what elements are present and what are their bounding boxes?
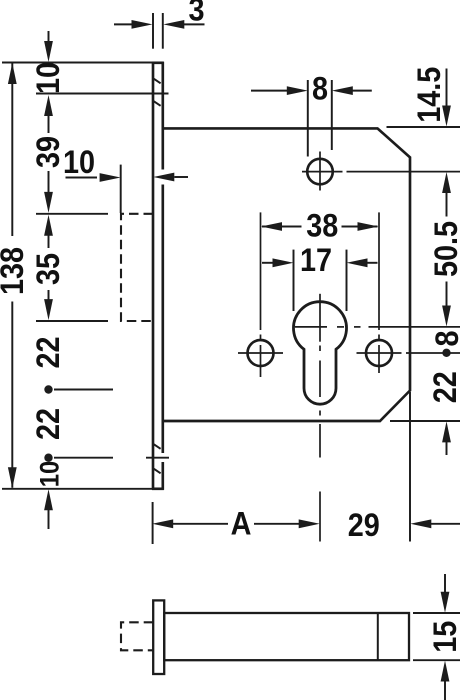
svg-text:39: 39 [31, 136, 67, 168]
svg-text:10: 10 [31, 62, 67, 94]
svg-text:22: 22 [31, 336, 67, 368]
svg-text:8: 8 [430, 330, 460, 346]
svg-text:8: 8 [312, 71, 328, 107]
svg-text:15: 15 [428, 621, 460, 653]
svg-text:17: 17 [300, 243, 332, 279]
svg-text:A: A [231, 506, 252, 542]
svg-text:50.5: 50.5 [429, 221, 460, 277]
svg-text:22: 22 [427, 371, 460, 403]
svg-text:3: 3 [188, 0, 204, 28]
svg-text:10: 10 [63, 145, 95, 181]
svg-text:138: 138 [0, 247, 30, 295]
svg-text:35: 35 [31, 253, 67, 285]
svg-text:10: 10 [35, 461, 64, 488]
svg-text:29: 29 [348, 508, 380, 544]
svg-text:14.5: 14.5 [411, 67, 447, 123]
svg-text:22: 22 [31, 408, 67, 440]
svg-text:38: 38 [306, 208, 338, 244]
